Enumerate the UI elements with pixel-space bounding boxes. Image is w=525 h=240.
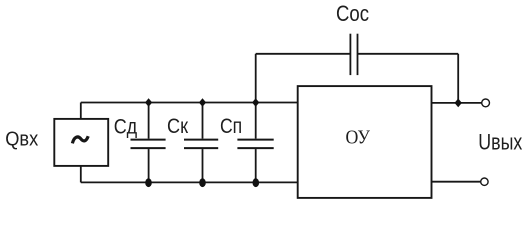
wire feedback top left segment	[256, 53, 351, 55]
svg-text:Ск: Ск	[167, 114, 188, 138]
wire top rail	[81, 102, 298, 104]
svg-text:Сп: Сп	[220, 114, 242, 138]
junction dot top rail node Сп	[252, 98, 259, 107]
terminal circle output top	[482, 99, 490, 107]
capacitor Сп top lead	[255, 103, 257, 139]
source box	[54, 119, 108, 166]
capacitor Сп bottom lead	[255, 149, 257, 182]
capacitor Сд top lead	[148, 103, 150, 139]
junction dot bottom rail node Сд	[145, 178, 152, 187]
op-amp U1 box	[298, 86, 432, 198]
svg-text:Сд: Сд	[114, 114, 138, 138]
AC source symbol ~	[72, 136, 88, 143]
junction dot top rail node Ск	[199, 98, 206, 107]
svg-text:Сос: Сос	[336, 1, 369, 26]
capacitor Ск bottom lead	[202, 149, 204, 182]
junction dot bottom rail node Сп	[253, 178, 260, 187]
capacitor Сд plates	[131, 140, 166, 149]
svg-text:Uвых: Uвых	[478, 130, 522, 155]
wire source bottom lead	[80, 166, 82, 183]
wire source top lead	[80, 103, 82, 120]
junction dot output node	[455, 99, 462, 108]
wire bottom rail	[81, 181, 298, 183]
junction dot top rail node Сд	[145, 98, 152, 107]
svg-text:ОУ: ОУ	[346, 127, 371, 148]
capacitor Сд bottom lead	[148, 149, 150, 182]
wire output bottom	[432, 181, 481, 183]
terminal circle output bottom	[481, 178, 488, 185]
capacitor Сп plates	[237, 140, 273, 149]
wire output top	[432, 102, 482, 104]
capacitor Ск plates	[184, 140, 218, 149]
wire feedback riser right	[457, 54, 459, 103]
wire feedback riser left	[255, 54, 257, 103]
wire feedback top right segment	[358, 53, 459, 55]
capacitor Cос plates	[350, 34, 357, 75]
junction dot bottom rail node Ск	[199, 178, 206, 187]
svg-text:Qвх: Qвх	[5, 128, 38, 150]
capacitor Ск top lead	[202, 103, 204, 139]
